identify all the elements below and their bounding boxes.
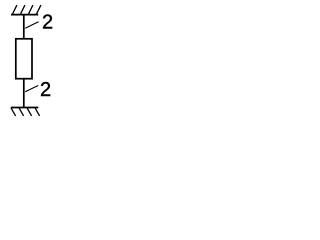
top support hatch 4	[36, 5, 41, 14]
svg-text:2: 2	[40, 79, 51, 101]
top fixed support ground line	[11, 14, 38, 16]
wire from element box to bottom support	[23, 79, 25, 107]
top support hatch 1	[12, 5, 17, 14]
leader line to top node label	[25, 22, 38, 28]
bottom support hatch 3	[27, 108, 32, 116]
leader line to bottom node label	[25, 86, 38, 92]
bottom fixed support ground line	[11, 107, 39, 109]
bottom support hatch 1	[11, 108, 16, 116]
wire from top support to element box	[23, 15, 25, 39]
svg-text:2: 2	[42, 11, 53, 33]
top support hatch 2	[20, 5, 25, 14]
element box (damper/mass rectangle)	[16, 39, 32, 79]
bottom support hatch 4	[35, 108, 40, 116]
top support hatch 3	[28, 5, 33, 14]
bottom support hatch 2	[19, 108, 24, 116]
